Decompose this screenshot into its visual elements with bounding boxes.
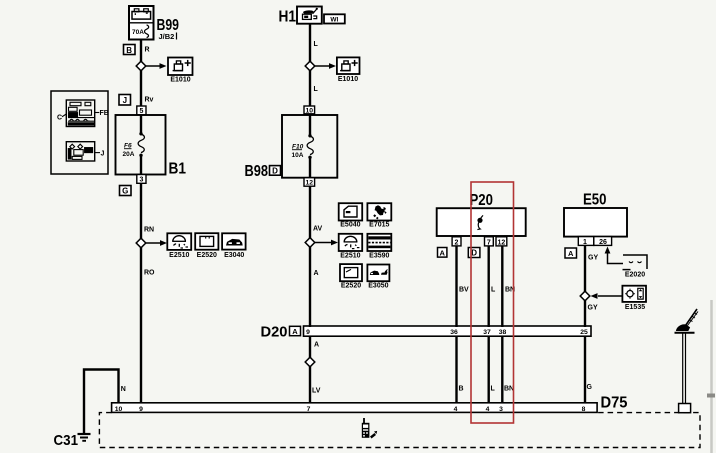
svg-text:RO: RO: [144, 270, 155, 277]
svg-text:A: A: [439, 248, 445, 257]
svg-text:E5040: E5040: [340, 222, 360, 229]
svg-text:12: 12: [306, 180, 314, 187]
svg-text:B: B: [126, 46, 132, 55]
svg-text:FB: FB: [100, 110, 109, 117]
svg-text:B98: B98: [245, 163, 269, 180]
svg-text:E1535: E1535: [625, 304, 645, 311]
svg-text:GY: GY: [588, 255, 598, 262]
svg-text:20A: 20A: [123, 151, 135, 158]
svg-text:38: 38: [499, 329, 507, 336]
svg-text:E3040: E3040: [224, 252, 244, 259]
svg-text:10A: 10A: [292, 152, 304, 159]
svg-text:BV: BV: [459, 287, 469, 294]
svg-text:A: A: [292, 327, 298, 336]
svg-text:C31: C31: [54, 432, 79, 449]
svg-text:9: 9: [306, 329, 310, 336]
svg-text:E7015: E7015: [369, 222, 389, 229]
svg-text:37: 37: [483, 329, 491, 336]
svg-text:D: D: [272, 167, 278, 176]
svg-text:J/B2: J/B2: [159, 32, 175, 41]
svg-text:B1: B1: [169, 161, 187, 178]
svg-text:1: 1: [583, 239, 587, 246]
svg-text:A: A: [314, 270, 319, 277]
svg-text:RN: RN: [144, 227, 154, 234]
svg-text:D20: D20: [261, 324, 288, 341]
svg-text:B: B: [459, 386, 464, 393]
svg-text:R: R: [145, 47, 150, 54]
svg-text:E3590: E3590: [369, 252, 389, 259]
svg-text:4: 4: [454, 406, 458, 413]
svg-text:D: D: [471, 249, 477, 258]
svg-text:E50: E50: [583, 192, 607, 209]
svg-text:E2510: E2510: [169, 252, 189, 259]
svg-text:L: L: [491, 287, 496, 294]
svg-text:26: 26: [599, 239, 607, 246]
svg-text:G: G: [587, 384, 593, 391]
svg-text:E3050: E3050: [368, 283, 388, 290]
svg-text:E2520: E2520: [341, 283, 361, 290]
svg-text:P20: P20: [470, 192, 494, 209]
svg-text:GY: GY: [588, 305, 598, 312]
svg-text:12: 12: [498, 239, 506, 246]
svg-text:N: N: [121, 386, 126, 393]
svg-text:7: 7: [487, 239, 491, 246]
svg-text:E2020: E2020: [625, 272, 645, 279]
svg-text:J: J: [101, 151, 105, 158]
svg-text:4: 4: [486, 406, 490, 413]
svg-text:A: A: [568, 249, 574, 258]
svg-text:E1010: E1010: [338, 76, 358, 83]
svg-text:3: 3: [139, 177, 143, 184]
svg-text:E1010: E1010: [170, 77, 190, 84]
svg-text:2: 2: [455, 239, 459, 246]
svg-text:E2520: E2520: [197, 252, 217, 259]
svg-text:Rv: Rv: [145, 97, 154, 104]
svg-text:36: 36: [450, 329, 458, 336]
svg-text:D75: D75: [601, 395, 628, 412]
svg-text:L: L: [314, 41, 319, 48]
svg-text:BN: BN: [504, 386, 514, 393]
svg-text:WI: WI: [330, 17, 338, 24]
svg-text:E2510: E2510: [340, 252, 360, 259]
svg-text:C: C: [57, 115, 62, 122]
svg-text:25: 25: [580, 329, 588, 336]
svg-text:LV: LV: [312, 388, 321, 395]
svg-text:L: L: [314, 86, 319, 93]
svg-text:7: 7: [307, 406, 311, 413]
svg-text:8: 8: [582, 406, 586, 413]
svg-text:G: G: [122, 187, 128, 196]
svg-text:9: 9: [139, 406, 143, 413]
svg-text:70A: 70A: [132, 29, 144, 36]
svg-text:A: A: [314, 342, 319, 349]
svg-text:J: J: [123, 96, 127, 105]
svg-text:H1: H1: [279, 9, 297, 26]
svg-text:AV: AV: [313, 226, 323, 233]
svg-text:10: 10: [306, 107, 314, 114]
svg-text:L: L: [491, 386, 496, 393]
svg-text:10: 10: [115, 406, 123, 413]
svg-text:3: 3: [499, 406, 503, 413]
